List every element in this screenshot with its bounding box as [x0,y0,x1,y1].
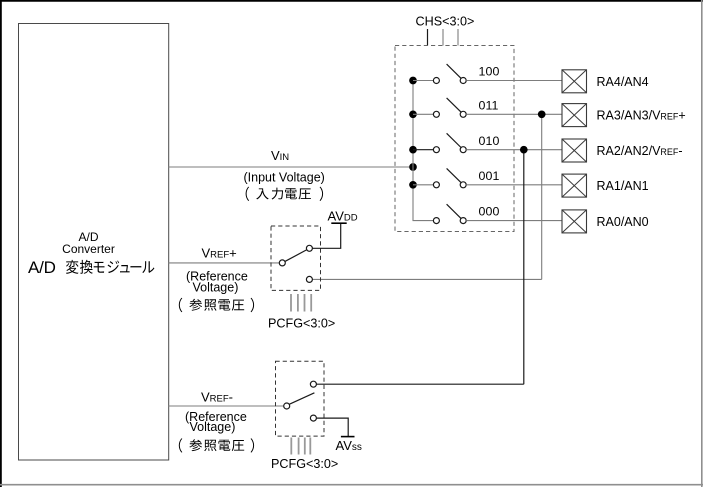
switch S4 pivot [460,182,466,188]
node bus junction row 010 [409,146,417,154]
pin pad AN4 [562,70,587,93]
switch S6 contact VREF+ [306,276,312,282]
svg-text:A/D: A/D [28,258,56,277]
switch S1 contact [433,78,439,84]
input bus wire [413,81,433,221]
outer frame [0,0,703,2]
node RA3 junction [538,110,546,118]
switch S4 contact [433,182,439,188]
switch S7 arm [289,393,314,405]
pin pad AN1 [562,174,587,197]
PCFG<3:0> ticks lower [290,438,292,455]
svg-text:VREF+: VREF+ [202,245,237,260]
CHS bus line 3 [457,29,459,46]
VREF- wire [169,405,284,407]
label 参照電圧 2 [179,438,254,452]
wire mux output row 000 [466,220,562,222]
wire bus stub row 001 [413,184,433,186]
switch S2 pivot [460,111,466,117]
switch S6 common [279,260,285,266]
svg-text:Converter: Converter [62,242,115,256]
wire mux output row 010 [466,149,562,151]
wire RA3 net to VREF+ switch [541,114,543,279]
svg-text:VIN: VIN [271,148,289,163]
VIN input wire [169,166,413,168]
svg-text:Voltage): Voltage) [193,281,239,295]
switch S6 arm [285,250,307,262]
CHS bus line 1 [427,29,429,46]
node RA2 junction [520,146,528,154]
switch S5 contact [433,218,439,224]
svg-text:RA1/AN1: RA1/AN1 [597,179,649,193]
svg-text:RA4/AN4: RA4/AN4 [597,75,649,89]
label 参照電圧 [179,298,254,312]
VREF+ select dashed box [271,226,321,290]
node bus junction row 100 [409,77,417,85]
svg-text:011: 011 [479,98,499,112]
switch S3 arm [447,133,461,147]
A/D converter module block [19,24,169,461]
svg-text:CHS<3:0>: CHS<3:0> [416,15,475,29]
svg-text:PCFG<3:0>: PCFG<3:0> [268,317,335,331]
svg-text:AVss: AVss [336,438,362,453]
node VIN junction [409,163,417,171]
label 入力電圧 [246,187,324,201]
svg-text:RA0/AN0: RA0/AN0 [597,215,649,229]
switch S1 pivot [460,78,466,84]
CHS bus line 2 [442,29,444,46]
svg-text:PCFG<3:0>: PCFG<3:0> [271,457,338,471]
pin pad AN0 [562,210,587,233]
switch S5 arm [447,204,461,218]
wire to AVSS [316,418,348,437]
power AVDD [331,222,346,224]
switch S4 arm [447,168,461,182]
svg-text:000: 000 [479,205,500,219]
PCFG<3:0> ticks upper [290,294,292,312]
wire bus stub row 010 [413,149,433,151]
power AVSS [341,436,355,438]
switch S3 pivot [460,147,466,153]
switch S6 contact AVDD [306,245,312,251]
switch S1 arm [447,64,461,78]
wire to AVDD [312,223,340,248]
pin pad AN3 [562,104,587,127]
svg-text:AVDD: AVDD [328,208,358,223]
switch S7 common [284,403,290,409]
svg-text:Voltage): Voltage) [190,420,236,434]
wire mux output row 011 [466,113,562,115]
VREF- select dashed box [276,361,325,436]
svg-text:100: 100 [479,65,500,79]
node bus junction row 011 [409,110,417,118]
svg-text:010: 010 [479,134,500,148]
wire mux output row 100 [466,80,562,82]
svg-text:RA3/AN3/VREF+: RA3/AN3/VREF+ [597,109,686,123]
switch S7 contact AVSS [310,415,316,421]
switch S7 contact VREF- [310,381,316,387]
svg-text:VREF-: VREF- [201,389,233,404]
VREF+ wire [169,262,280,264]
wire RA2 net to VREF- switch [523,150,525,385]
switch S2 contact [433,111,439,117]
wire mux output row 001 [466,184,562,186]
wire bus stub row 100 [413,80,433,82]
svg-text:001: 001 [479,169,500,183]
wire bus stub row 011 [413,113,433,115]
switch S2 arm [447,98,461,112]
pin pad AN2 [562,139,587,162]
analog input mux dashed box [395,46,514,232]
node bus junction row 001 [409,181,417,189]
svg-text:(Input Voltage): (Input Voltage) [244,170,325,184]
svg-text:RA2/AN2/VREF-: RA2/AN2/VREF- [597,144,683,158]
switch S5 pivot [460,218,466,224]
switch S3 contact [433,147,439,153]
